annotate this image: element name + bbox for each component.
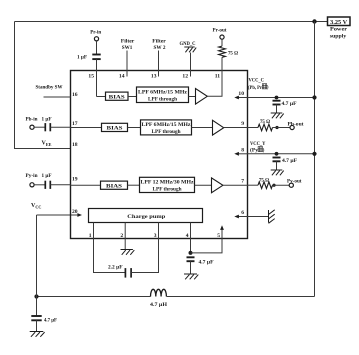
- wire pin 12 stub: [190, 53, 192, 77]
- svg-text:Charge pump: Charge pump: [127, 214, 165, 220]
- label VCC_Y channel: [250, 147, 265, 154]
- svg-text:supply: supply: [330, 33, 347, 39]
- svg-text:(Py: (Py: [250, 147, 258, 154]
- svg-text:75 Ω: 75 Ω: [260, 119, 271, 125]
- op-amp A3: [212, 178, 223, 193]
- svg-text:10: 10: [238, 91, 244, 97]
- wire pin 2 to ground: [124, 239, 126, 250]
- svg-text:Filter: Filter: [152, 39, 166, 45]
- svg-text:Py-in: Py-in: [26, 173, 38, 179]
- wire pin 1 to C7: [94, 239, 126, 273]
- svg-text:GND_C: GND_C: [180, 41, 196, 47]
- svg-text:SW 2: SW 2: [154, 45, 166, 51]
- label VCC_C channels: [248, 84, 269, 91]
- wire row2 pin17 to BIAS2: [71, 127, 102, 129]
- label Filter SW2: [152, 39, 166, 51]
- svg-text:LPF through: LPF through: [153, 187, 182, 193]
- svg-text:LPF 6MHz/15 MHz: LPF 6MHz/15 MHz: [142, 122, 192, 128]
- svg-text:14: 14: [119, 74, 125, 80]
- pin 8 arrow feed: [234, 152, 247, 156]
- wire left VEE branch: [15, 22, 71, 149]
- svg-text:Power: Power: [330, 27, 348, 33]
- svg-text:75 Ω: 75 Ω: [259, 178, 270, 184]
- svg-text:9: 9: [241, 121, 244, 127]
- inductor L1 4.7 uH: [151, 289, 167, 296]
- wire pin 15: [96, 59, 98, 96]
- terminal Pb-out: [290, 125, 294, 129]
- svg-text:2.2 µF: 2.2 µF: [108, 265, 123, 271]
- svg-text:4.7 µF: 4.7 µF: [199, 260, 215, 266]
- svg-text:VCC: VCC: [31, 203, 41, 209]
- label Filter SW1: [121, 39, 135, 51]
- wire pin 4 from charge pump: [190, 223, 192, 239]
- terminal Pb-in: [30, 125, 34, 129]
- wire pin 7 to R3: [248, 184, 259, 186]
- node VCC_C cap junction: [275, 96, 279, 100]
- wire Py-in to C3: [34, 184, 45, 186]
- wire row1 pin15 to BIAS1: [97, 96, 106, 98]
- svg-text:1 µF: 1 µF: [42, 173, 53, 179]
- ground bottom-left: [30, 332, 45, 337]
- pin 6 arrow feed: [234, 215, 247, 219]
- amplifier BIAS2 box: [102, 123, 128, 131]
- svg-text:SW1: SW1: [122, 45, 133, 51]
- node VCC_Y rail junction: [312, 152, 316, 156]
- amplifier BIAS1 box: [106, 92, 129, 100]
- capacitor C6 4.7 uF: [187, 257, 195, 261]
- resistor R3 75 ohm: [258, 182, 273, 189]
- wire A3 output to pin 7: [223, 184, 248, 186]
- wire LPF3 to A3: [195, 184, 212, 186]
- capacitor C2 1 uF: [45, 123, 50, 131]
- wire A1 output to pin 11: [207, 71, 222, 97]
- wire top power rail from VEE corner to power supply: [15, 21, 328, 23]
- svg-text:Pb-out: Pb-out: [288, 121, 304, 127]
- wire pin 9 to R2: [248, 127, 259, 129]
- capacitor C7 2.2 uF: [125, 268, 131, 278]
- wire right power rail: [314, 22, 316, 297]
- ground pin 2: [121, 250, 135, 255]
- ground C4: [271, 113, 284, 118]
- terminal Py-out: [289, 183, 293, 187]
- svg-text:4.7 µF: 4.7 µF: [44, 317, 58, 323]
- wire pin 5 to junction: [191, 239, 223, 253]
- svg-text:4: 4: [186, 233, 189, 239]
- wire pin 16 Standby SW: [44, 96, 71, 98]
- node top-right rail junction: [312, 19, 316, 23]
- ground C5: [271, 170, 284, 175]
- terminal Pr-out: [220, 35, 224, 39]
- op-amp A1: [196, 89, 208, 105]
- svg-text:4.7 µF: 4.7 µF: [282, 101, 298, 107]
- svg-text:Standby SW: Standby SW: [36, 85, 64, 91]
- svg-text:VCC_C: VCC_C: [249, 78, 265, 84]
- svg-text:1: 1: [89, 233, 92, 239]
- node pin 4-5 junction: [189, 251, 193, 255]
- wire Pr-in to C1: [96, 41, 98, 55]
- power supply caption: [330, 27, 348, 40]
- ground GND_C: [184, 47, 196, 52]
- wire pin 1 from charge pump: [93, 223, 95, 239]
- wire pin 17: [50, 126, 70, 128]
- wire pin 14 stub: [126, 51, 128, 77]
- svg-text:1 µF: 1 µF: [77, 55, 88, 61]
- svg-text:3.25 V: 3.25 V: [330, 20, 348, 26]
- svg-text:LPF 6MHz/15 MHz: LPF 6MHz/15 MHz: [138, 89, 188, 95]
- svg-text:16: 16: [72, 92, 78, 98]
- resistor R1 75 ohm: [219, 46, 226, 57]
- svg-text:3: 3: [154, 233, 157, 239]
- wire C5 to ground: [276, 161, 278, 170]
- wire pin 3 from charge pump: [158, 223, 160, 239]
- wire VCC_Y net: [248, 153, 315, 155]
- node bottom-left junction: [34, 294, 38, 298]
- terminal Pr-in: [94, 37, 98, 41]
- svg-text:75 Ω: 75 Ω: [228, 51, 239, 57]
- svg-text:4.7 µF: 4.7 µF: [282, 158, 298, 164]
- wire LPF1 to A1: [189, 96, 196, 98]
- wire C4 to ground: [276, 105, 278, 114]
- svg-text:1 µF: 1 µF: [42, 117, 53, 123]
- svg-text:LPF 12 MHz/30 MHz: LPF 12 MHz/30 MHz: [141, 180, 195, 186]
- wire bottom from VCC rail to inductor: [37, 296, 151, 298]
- wire pin 20 feed: [37, 214, 78, 216]
- svg-text:12: 12: [182, 74, 188, 80]
- svg-text:Pr-out: Pr-out: [213, 28, 227, 34]
- svg-text:7: 7: [241, 179, 244, 185]
- amplifier BIAS3 box: [101, 181, 128, 189]
- wire Pb-in to C2: [34, 126, 45, 128]
- svg-text:19: 19: [72, 177, 78, 183]
- wire R3 to Py-out: [273, 184, 290, 186]
- filter LPF3 box: [140, 177, 195, 192]
- wire pin 4 down: [190, 239, 192, 253]
- svg-text:18: 18: [72, 142, 78, 148]
- wire pin 6 to ground: [248, 216, 269, 218]
- svg-text:LPF through: LPF through: [148, 96, 177, 102]
- wire pin 11: [221, 57, 223, 96]
- resistor R2 75 ohm: [258, 124, 273, 131]
- capacitor C4 4.7 uF: [273, 101, 281, 105]
- wire Pr-out to R1: [221, 39, 223, 46]
- node R2 output: [275, 126, 278, 129]
- wire BIAS1 to LPF1: [128, 96, 137, 98]
- svg-text:Pb-in: Pb-in: [26, 117, 38, 123]
- svg-text:(Pb, Pr: (Pb, Pr: [248, 84, 263, 91]
- node VCC_Y cap junction: [275, 152, 279, 156]
- wire VCC_C net: [248, 97, 315, 99]
- svg-text:Py-out: Py-out: [287, 178, 302, 184]
- op-amp A2: [213, 120, 224, 135]
- svg-text:4.7 µH: 4.7 µH: [150, 302, 168, 308]
- svg-text:Pr-in: Pr-in: [90, 29, 101, 35]
- filter LPF1 box: [137, 87, 189, 103]
- wire C6 to ground: [190, 261, 192, 274]
- wire LPF2 to A2: [192, 127, 213, 129]
- terminal Py-in: [30, 183, 34, 187]
- svg-text:5: 5: [217, 233, 220, 239]
- pin 20 arrow: [77, 213, 82, 217]
- ground pin 4: [184, 274, 198, 279]
- wire bottom from inductor to right rail: [167, 296, 315, 298]
- wire BIAS2 to LPF2: [128, 127, 141, 129]
- power supply box 3.25 V: [328, 17, 351, 26]
- svg-text:Filter: Filter: [121, 39, 135, 45]
- svg-text:17: 17: [72, 121, 78, 127]
- node R3 output: [272, 184, 275, 187]
- svg-text:15: 15: [88, 74, 94, 80]
- wire A2 output to pin 9: [224, 127, 248, 129]
- wire pin 13 stub: [158, 51, 160, 77]
- capacitor 4.7 uF bottom-left: [31, 316, 41, 320]
- svg-text:11: 11: [215, 74, 220, 80]
- svg-text:BIAS: BIAS: [107, 126, 123, 132]
- svg-text:6: 6: [241, 210, 244, 216]
- node VCC_C rail junction: [312, 95, 316, 99]
- filter LPF2 box: [141, 120, 192, 135]
- pin 5 arrow feed: [220, 225, 224, 238]
- wire cap to ground bottom-left: [36, 320, 38, 331]
- capacitor C3 1 uF: [45, 181, 50, 189]
- capacitor C5 4.7 uF: [273, 158, 281, 162]
- wire R2 to Pb-out: [273, 127, 290, 129]
- charge pump box: [89, 209, 203, 223]
- wire C7 to pin 3: [131, 239, 158, 273]
- wire row3 pin19 to BIAS3: [71, 184, 101, 186]
- ground pin 6 rotated: [269, 210, 275, 224]
- wire pin 19: [50, 184, 70, 186]
- svg-text:13: 13: [151, 74, 157, 80]
- wire pin 2 from charge pump: [124, 223, 126, 239]
- svg-text:2: 2: [120, 233, 123, 239]
- svg-text:20: 20: [72, 209, 78, 215]
- svg-text:VCC_Y: VCC_Y: [250, 141, 266, 147]
- svg-text:BIAS: BIAS: [109, 94, 125, 100]
- svg-text:8: 8: [241, 147, 244, 153]
- capacitor C1 1 uF: [92, 55, 100, 60]
- wire BIAS3 to LPF3: [128, 184, 140, 186]
- pin 10 arrow feed: [234, 96, 247, 100]
- op-amp IC U1 outline: [71, 71, 248, 239]
- wire VCC rail vertical: [36, 215, 38, 316]
- svg-text:BIAS: BIAS: [106, 184, 122, 190]
- svg-text:LPF through: LPF through: [152, 129, 181, 135]
- svg-text:VEE: VEE: [42, 141, 52, 147]
